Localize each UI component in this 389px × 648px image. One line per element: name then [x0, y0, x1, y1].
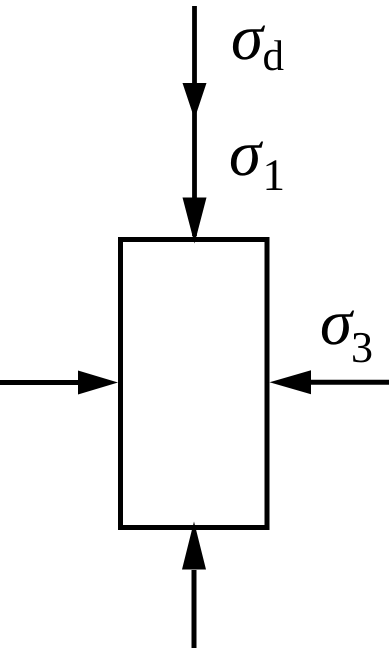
arrowhead sigma_1 (downward, at top face) — [183, 198, 207, 244]
arrowhead left (rightward, at left face) — [78, 371, 118, 395]
bottom vertical reaction line — [192, 570, 197, 648]
label sigma_1 — [231, 142, 263, 176]
arrowhead right (leftward, at right face) — [270, 370, 312, 394]
right horizontal load line — [311, 380, 389, 385]
label sigma_3 — [322, 311, 354, 345]
arrowhead bottom (upward, at bottom face) — [182, 522, 206, 570]
top vertical load line — [192, 6, 197, 236]
specimen rectangle — [121, 240, 268, 528]
left horizontal load line — [0, 380, 80, 385]
label sigma_d — [233, 26, 265, 60]
arrowhead sigma_d (downward, mid line) — [183, 83, 207, 119]
